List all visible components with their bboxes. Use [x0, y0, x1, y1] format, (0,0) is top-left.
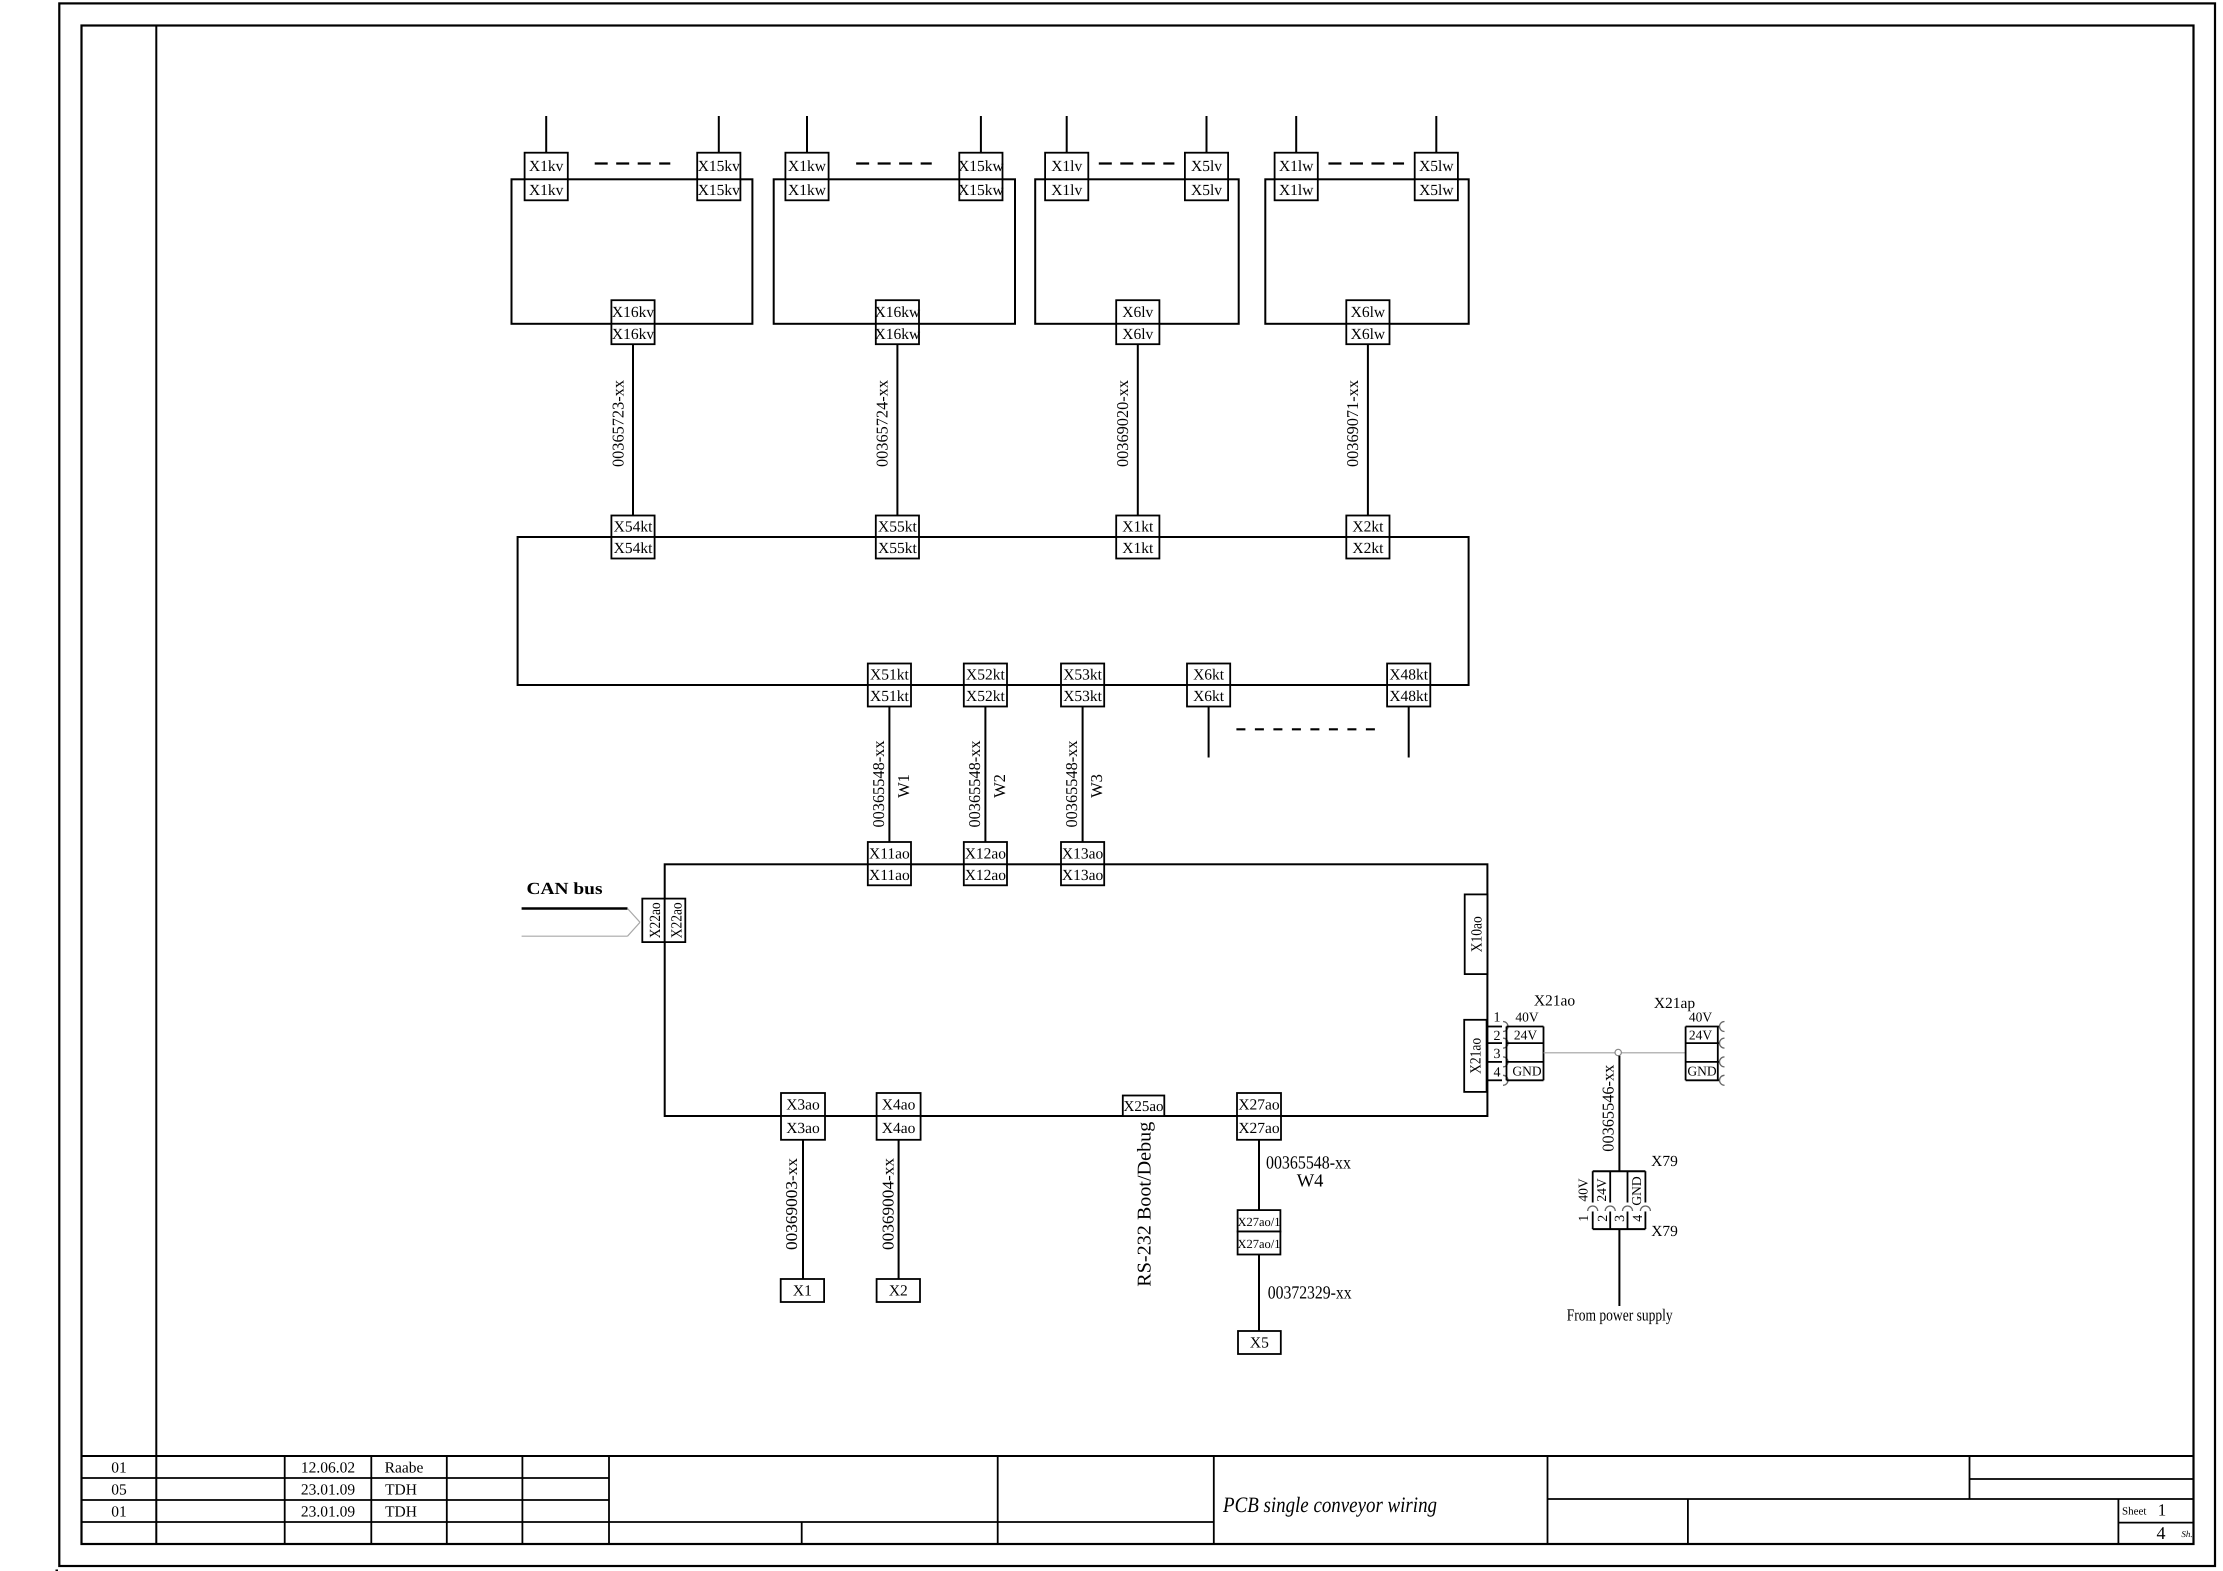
- svg-text:00365548-xx: 00365548-xx: [965, 740, 984, 828]
- svg-text:Sheet: Sheet: [2122, 1506, 2146, 1518]
- label X79 (bottom): [1651, 1223, 1678, 1240]
- svg-text:X53kt: X53kt: [1063, 688, 1102, 705]
- svg-text:X1: X1: [793, 1283, 812, 1300]
- dashed continuation: [1328, 162, 1404, 164]
- connector X25ao: [1123, 1096, 1165, 1117]
- connector X13ao: [1061, 842, 1104, 885]
- plot mark: [56, 1570, 59, 1571]
- connector X5lv: [1185, 153, 1228, 201]
- svg-text:X1kw: X1kw: [788, 182, 827, 199]
- svg-text:W3: W3: [1087, 774, 1106, 798]
- svg-text:X6kt: X6kt: [1193, 666, 1225, 683]
- svg-text:X16kw: X16kw: [875, 304, 921, 321]
- svg-text:X27ao: X27ao: [1238, 1120, 1280, 1137]
- connector X5: [1238, 1331, 1281, 1354]
- svg-text:X1lv: X1lv: [1051, 158, 1082, 175]
- connector X5lw: [1415, 153, 1458, 201]
- svg-text:GND: GND: [1512, 1064, 1541, 1079]
- svg-text:X79: X79: [1651, 1223, 1678, 1240]
- svg-text:1: 1: [1577, 1215, 1592, 1222]
- svg-text:X52kt: X52kt: [966, 688, 1005, 705]
- dashed continuation: [1099, 162, 1175, 164]
- distribution board box: [518, 537, 1469, 685]
- svg-text:00372329-xx: 00372329-xx: [1268, 1283, 1353, 1303]
- connector X54kt: [611, 516, 654, 559]
- connector X12ao: [964, 842, 1007, 885]
- wire: [980, 116, 982, 153]
- connector X11ao: [868, 842, 911, 885]
- connector X16kv: [611, 300, 654, 344]
- svg-text:4: 4: [2157, 1523, 2166, 1543]
- svg-text:24V: 24V: [1514, 1028, 1538, 1043]
- conveyor unit box 2: [774, 179, 1015, 323]
- connector X6lw: [1346, 300, 1389, 344]
- svg-text:X1kw: X1kw: [788, 158, 827, 175]
- label RS-232 Boot/Debug: [1135, 1121, 1156, 1286]
- connector X51kt: [868, 664, 911, 707]
- svg-text:X55kt: X55kt: [878, 540, 917, 557]
- svg-text:00365548-xx: 00365548-xx: [1062, 740, 1081, 828]
- svg-text:X27ao: X27ao: [1238, 1097, 1280, 1114]
- svg-text:X11ao: X11ao: [869, 867, 910, 884]
- svg-text:X51kt: X51kt: [870, 666, 909, 683]
- svg-text:00365724-xx: 00365724-xx: [873, 379, 892, 467]
- cable 00365548-xx W4: [1259, 1140, 1352, 1210]
- cable 00365548-xx W2: [965, 707, 1009, 843]
- svg-text:X25ao: X25ao: [1124, 1099, 1164, 1115]
- svg-text:X12ao: X12ao: [965, 867, 1007, 884]
- svg-text:2: 2: [1494, 1029, 1501, 1044]
- dashed continuation: [595, 162, 671, 164]
- svg-text:4: 4: [1494, 1065, 1501, 1080]
- svg-text:RS-232 Boot/Debug: RS-232 Boot/Debug: [1135, 1121, 1156, 1286]
- svg-text:X16kv: X16kv: [612, 326, 654, 343]
- svg-text:X6lv: X6lv: [1122, 326, 1153, 343]
- conveyor unit box 4: [1265, 179, 1468, 323]
- svg-text:X1lv: X1lv: [1051, 182, 1082, 199]
- svg-text:X1kt: X1kt: [1122, 540, 1154, 557]
- svg-text:GND: GND: [1629, 1176, 1644, 1205]
- svg-text:X6lv: X6lv: [1122, 304, 1153, 321]
- connector X21ao: [1464, 1020, 1486, 1092]
- svg-text:X16kv: X16kv: [612, 304, 654, 321]
- svg-text:40V: 40V: [1576, 1178, 1591, 1202]
- svg-text:TDH: TDH: [385, 1482, 417, 1499]
- wire: [1435, 116, 1437, 153]
- label X79 (top): [1651, 1153, 1678, 1170]
- svg-text:12.06.02: 12.06.02: [301, 1460, 355, 1477]
- svg-text:05: 05: [111, 1482, 127, 1499]
- svg-text:X16kw: X16kw: [875, 326, 921, 343]
- svg-text:CAN bus: CAN bus: [527, 879, 603, 898]
- CAN bus net: [522, 879, 640, 936]
- conveyor unit box 1: [512, 179, 753, 323]
- net 40V/24V/GND wire: [1544, 1052, 1686, 1054]
- connector X6kt: [1187, 664, 1230, 707]
- svg-text:X53kt: X53kt: [1063, 666, 1102, 683]
- cable 00365548-xx W3: [1062, 707, 1106, 843]
- connector X53kt: [1061, 664, 1104, 707]
- connector X27ao/1: [1237, 1210, 1280, 1254]
- junction node: [1615, 1049, 1621, 1055]
- svg-text:X27ao/1: X27ao/1: [1237, 1215, 1280, 1229]
- svg-text:W2: W2: [990, 774, 1009, 798]
- value labels X21ap: [1687, 1009, 1716, 1078]
- svg-text:X5lv: X5lv: [1191, 158, 1222, 175]
- svg-text:X15kw: X15kw: [958, 182, 1004, 199]
- svg-text:40V: 40V: [1689, 1009, 1713, 1024]
- svg-text:X2kt: X2kt: [1352, 518, 1384, 535]
- svg-text:PCB single conveyor wiring: PCB single conveyor wiring: [1222, 1492, 1437, 1517]
- wire: [545, 116, 547, 153]
- connector X1kv: [525, 153, 568, 201]
- cable 00369004-xx: [878, 1140, 898, 1279]
- wire from power supply: [1618, 1229, 1620, 1306]
- svg-text:3: 3: [1613, 1215, 1628, 1222]
- pin numbers X79: [1577, 1215, 1646, 1222]
- svg-text:X13ao: X13ao: [1062, 867, 1104, 884]
- svg-text:00369020-xx: 00369020-xx: [1113, 379, 1132, 467]
- svg-text:X6kt: X6kt: [1193, 688, 1225, 705]
- dashed continuation: [1236, 728, 1379, 730]
- connector X15kw: [958, 153, 1004, 201]
- svg-text:From power supply: From power supply: [1567, 1306, 1673, 1325]
- svg-text:X4ao: X4ao: [882, 1097, 916, 1114]
- svg-text:24V: 24V: [1689, 1028, 1713, 1043]
- connector X55kt: [876, 516, 919, 559]
- svg-text:X51kt: X51kt: [870, 688, 909, 705]
- svg-text:X22ao: X22ao: [647, 902, 664, 938]
- svg-text:X4ao: X4ao: [882, 1120, 916, 1137]
- svg-text:X79: X79: [1651, 1153, 1678, 1170]
- svg-text:24V: 24V: [1594, 1178, 1609, 1202]
- svg-text:00365546-xx: 00365546-xx: [1598, 1064, 1617, 1152]
- connector X1kt: [1116, 516, 1159, 559]
- wire from X6kt: [1208, 707, 1210, 758]
- connector X1lw: [1275, 153, 1318, 201]
- svg-text:4: 4: [1631, 1215, 1646, 1222]
- connector X4ao: [877, 1093, 921, 1140]
- connector X1: [781, 1279, 824, 1302]
- svg-text:X2: X2: [889, 1283, 908, 1300]
- svg-text:2: 2: [1596, 1215, 1611, 1222]
- connector X16kw: [875, 300, 921, 344]
- wire: [718, 116, 720, 153]
- connector X3ao: [781, 1093, 825, 1140]
- cable 00369003-xx: [782, 1140, 803, 1279]
- svg-text:X11ao: X11ao: [869, 845, 910, 862]
- svg-text:X22ao: X22ao: [668, 902, 685, 938]
- svg-text:X6lw: X6lw: [1351, 304, 1386, 321]
- wire: [1206, 116, 1208, 153]
- connector X15kv: [697, 153, 740, 201]
- svg-text:Raabe: Raabe: [385, 1460, 424, 1477]
- svg-text:40V: 40V: [1515, 1009, 1539, 1024]
- svg-text:23.01.09: 23.01.09: [301, 1504, 356, 1521]
- svg-text:TDH: TDH: [385, 1504, 417, 1521]
- svg-text:X1lw: X1lw: [1279, 158, 1314, 175]
- svg-text:X12ao: X12ao: [965, 845, 1007, 862]
- svg-text:X1kt: X1kt: [1122, 518, 1154, 535]
- svg-text:X1kv: X1kv: [529, 182, 564, 199]
- svg-text:00365548-xx: 00365548-xx: [869, 740, 888, 828]
- connector X10ao: [1465, 894, 1488, 974]
- svg-text:X52kt: X52kt: [966, 666, 1005, 683]
- svg-text:00369004-xx: 00369004-xx: [878, 1157, 897, 1250]
- svg-text:X15kv: X15kv: [698, 182, 740, 199]
- connector X1kw: [785, 153, 828, 201]
- svg-text:X1kv: X1kv: [529, 158, 564, 175]
- connector X27ao: [1237, 1093, 1281, 1140]
- svg-text:00365723-xx: 00365723-xx: [608, 379, 627, 467]
- dashed continuation: [856, 162, 932, 164]
- svg-text:01: 01: [111, 1504, 127, 1521]
- connector X2: [877, 1279, 920, 1302]
- wire: [1066, 116, 1068, 153]
- svg-text:01: 01: [111, 1460, 127, 1477]
- svg-text:X3ao: X3ao: [786, 1120, 820, 1137]
- wire from X48kt: [1408, 707, 1410, 758]
- svg-text:X15kw: X15kw: [958, 158, 1004, 175]
- svg-text:X54kt: X54kt: [614, 518, 653, 535]
- svg-text:X21ao: X21ao: [1468, 1038, 1485, 1074]
- cable 00365548-xx W1: [869, 707, 913, 843]
- svg-text:1: 1: [2158, 1501, 2167, 1520]
- svg-text:W4: W4: [1297, 1172, 1324, 1192]
- svg-text:X1lw: X1lw: [1279, 182, 1314, 199]
- svg-text:00369071-xx: 00369071-xx: [1343, 379, 1362, 467]
- svg-text:GND: GND: [1687, 1064, 1716, 1079]
- cable 00365723-xx: [608, 344, 633, 515]
- svg-text:X54kt: X54kt: [614, 540, 653, 557]
- svg-text:X5lw: X5lw: [1419, 182, 1454, 199]
- main controller board box: [665, 864, 1488, 1116]
- connector X22ao: [642, 899, 685, 943]
- svg-text:X3ao: X3ao: [786, 1097, 820, 1114]
- svg-text:X21ao: X21ao: [1534, 993, 1576, 1010]
- connector X2kt: [1346, 516, 1389, 559]
- svg-text:X48kt: X48kt: [1389, 666, 1428, 683]
- svg-text:X5lw: X5lw: [1419, 158, 1454, 175]
- svg-text:X5: X5: [1250, 1335, 1269, 1352]
- wire: [806, 116, 808, 153]
- svg-text:X5lv: X5lv: [1191, 182, 1222, 199]
- connector X6lv: [1116, 300, 1159, 344]
- svg-text:00369003-xx: 00369003-xx: [782, 1157, 801, 1250]
- cable 00365546-xx: [1598, 1056, 1619, 1172]
- connector X79: [1588, 1171, 1651, 1229]
- conveyor unit box 3: [1035, 179, 1239, 323]
- connector X1lv: [1045, 153, 1088, 201]
- cable 00372329-xx: [1259, 1255, 1352, 1332]
- svg-text:X48kt: X48kt: [1389, 688, 1428, 705]
- connector X48kt: [1387, 664, 1430, 707]
- svg-text:X2kt: X2kt: [1352, 540, 1384, 557]
- svg-text:23.01.09: 23.01.09: [301, 1482, 356, 1499]
- svg-text:X6lw: X6lw: [1351, 326, 1386, 343]
- svg-text:X55kt: X55kt: [878, 518, 917, 535]
- value labels X79: [1576, 1176, 1645, 1205]
- svg-text:1: 1: [1494, 1011, 1501, 1026]
- svg-text:X13ao: X13ao: [1062, 845, 1104, 862]
- connector X21ap pin fan-out: [1654, 995, 1725, 1085]
- cable 00369020-xx: [1113, 344, 1138, 515]
- cable 00365724-xx: [873, 344, 898, 515]
- svg-text:X27ao/1: X27ao/1: [1237, 1237, 1280, 1251]
- value labels X21ao: [1512, 1009, 1541, 1078]
- svg-text:X15kv: X15kv: [698, 158, 740, 175]
- wire: [1295, 116, 1297, 153]
- svg-text:X10ao: X10ao: [1469, 916, 1486, 952]
- svg-text:3: 3: [1494, 1047, 1501, 1062]
- connector X52kt: [964, 664, 1007, 707]
- svg-text:W1: W1: [894, 774, 913, 798]
- connector X21ao pin fan-out: [1487, 993, 1575, 1086]
- svg-text:Sh.: Sh.: [2181, 1529, 2192, 1539]
- label From power supply: [1567, 1306, 1673, 1325]
- pin numbers X21ao: [1494, 1011, 1501, 1081]
- cable 00369071-xx: [1343, 344, 1368, 515]
